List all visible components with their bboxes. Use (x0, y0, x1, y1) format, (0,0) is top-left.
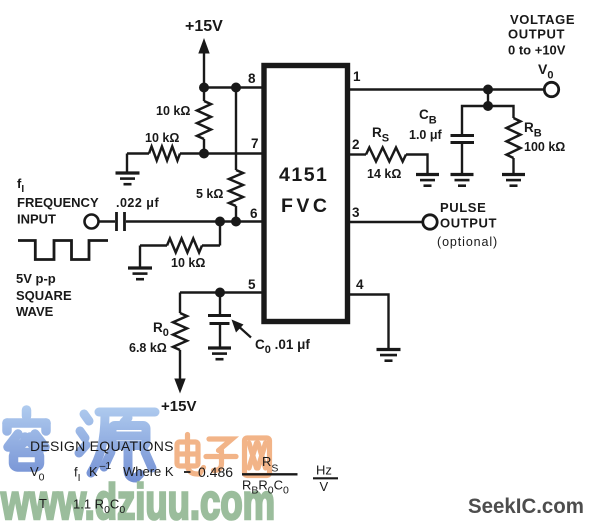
input terminal circle (85, 215, 99, 229)
svg-text:+15V: +15V (185, 18, 223, 35)
svg-text:4: 4 (356, 277, 364, 292)
node pin5 (215, 288, 225, 298)
wire pin5 to R0 (179, 293, 181, 314)
pointer arrow to C0 (232, 320, 252, 338)
svg-text:6: 6 (250, 206, 258, 221)
wire pin 3 (350, 221, 423, 223)
svg-text:DESIGN EQUATIONS: DESIGN EQUATIONS (30, 438, 174, 454)
wire R2 to ground (126, 154, 128, 174)
svg-text:2: 2 (352, 137, 360, 152)
resistor R4 10 k horizontal (140, 239, 220, 253)
svg-text:100 kΩ: 100 kΩ (524, 140, 565, 154)
wire to pin 8 (204, 86, 262, 88)
capacitor C1 .022uF (117, 212, 125, 231)
svg-text:7: 7 (251, 136, 259, 151)
wire pin 5 (180, 291, 262, 293)
svg-text:K: K (89, 464, 98, 479)
ground G4 (CB) (451, 175, 474, 186)
equation V0 = fI K^-1 Where K - 0.486 (30, 460, 233, 484)
wire pin 7 (204, 152, 262, 154)
wire +15V rail down (crosses pin7) (235, 88, 237, 171)
wire R0 down to supply arrow (179, 350, 181, 380)
svg-text:5: 5 (248, 277, 256, 292)
fraction Hz / V (313, 463, 338, 495)
svg-text:V: V (320, 479, 329, 494)
svg-text:FVC: FVC (281, 195, 331, 217)
ground G6 (RS) (416, 175, 439, 186)
svg-text:14 kΩ: 14 kΩ (367, 167, 401, 181)
node pin1 (483, 85, 493, 95)
svg-text:INPUT: INPUT (17, 212, 56, 227)
wire node down to R4 (219, 222, 221, 246)
svg-text:–1: –1 (100, 460, 112, 472)
resistor R2 10 k horizontal at pin 7 (127, 147, 204, 161)
label VOLTAGE OUTPUT 0 to +10V (508, 12, 575, 58)
wire pin 1 to V0 (350, 88, 544, 90)
watermark character 容 (7, 410, 46, 467)
svg-text:Where K: Where K (123, 464, 174, 479)
capacitor CB 1.0uF (451, 136, 475, 175)
capacitor C0 .01uF (208, 316, 231, 348)
wire node down (487, 90, 489, 107)
ground G7 (pin 4) (377, 350, 401, 361)
node pin6 right (231, 217, 241, 227)
svg-text:T: T (39, 496, 47, 511)
pulse output terminal (423, 215, 437, 229)
ground G5 (RB) (502, 175, 525, 186)
watermark characters 电子网 (177, 435, 270, 476)
+15V supply bottom (arrow down) (161, 379, 196, 416)
+15V supply top (185, 18, 223, 88)
svg-text:3: 3 (352, 205, 360, 220)
node pin6 left (215, 217, 225, 227)
svg-text:WAVE: WAVE (16, 304, 54, 319)
svg-text:SeekIC.com: SeekIC.com (468, 495, 584, 518)
fraction RS / RB R0 C0 (242, 454, 298, 497)
node at +15V rail right (231, 83, 241, 93)
op-amp/converter IC U1 4151 FVC (264, 66, 348, 322)
output terminal V0 (544, 82, 558, 96)
svg-text:SQUARE: SQUARE (16, 288, 72, 303)
svg-text:10 kΩ: 10 kΩ (156, 104, 190, 118)
svg-text:FREQUENCY: FREQUENCY (17, 195, 99, 210)
resistor R1 10 k vertical divider top (197, 88, 211, 154)
equation T - 1.1 R0C0 (39, 496, 125, 516)
svg-text:+15V: +15V (161, 398, 196, 415)
svg-text:OUTPUT: OUTPUT (440, 216, 497, 231)
wire input to C1 (99, 220, 116, 222)
svg-text:8: 8 (248, 71, 256, 86)
wire pin 6 (126, 220, 262, 222)
watermark character 源 (79, 412, 155, 478)
ground G2 (128, 268, 152, 279)
square wave symbol (18, 241, 108, 260)
svg-text:.022 μf: .022 μf (116, 196, 159, 210)
ground G3 (C0) (208, 348, 231, 359)
wire pin 4 to ground (350, 295, 389, 349)
svg-text:4151: 4151 (279, 164, 328, 186)
svg-text:VOLTAGE: VOLTAGE (510, 12, 575, 27)
svg-text:Hz: Hz (316, 463, 332, 478)
wire pin5 node to C0 (219, 293, 221, 315)
svg-text:1: 1 (353, 69, 361, 84)
resistor RS 14k at pin 2 (350, 148, 428, 175)
svg-text:0 to +10V: 0 to +10V (508, 43, 566, 58)
svg-text:0.486: 0.486 (198, 464, 233, 480)
svg-text:(optional): (optional) (437, 235, 498, 249)
node at +15V rail left (199, 83, 209, 93)
wire junction to CB (462, 106, 488, 134)
resistor RB 100k (507, 118, 521, 174)
resistor R0 6.8 k (173, 313, 187, 350)
resistor R3 5 k vertical (229, 170, 243, 222)
svg-text:1.0 μf: 1.0 μf (409, 128, 442, 142)
node at pin 7 junction (199, 149, 209, 159)
svg-text:10 kΩ: 10 kΩ (171, 256, 205, 270)
label PULSE OUTPUT (optional) (437, 200, 498, 249)
node CB/RB junction (483, 101, 493, 111)
svg-text:OUTPUT: OUTPUT (508, 27, 565, 42)
svg-text:6.8 kΩ: 6.8 kΩ (129, 341, 167, 355)
svg-text:5V p-p: 5V p-p (16, 271, 56, 286)
svg-text:PULSE: PULSE (440, 200, 486, 215)
wire R4 to ground (139, 246, 141, 269)
svg-text:10 kΩ: 10 kΩ (145, 131, 179, 145)
svg-text:5 kΩ: 5 kΩ (196, 187, 223, 201)
wire junction to RB (488, 106, 514, 118)
ground G1 (116, 173, 140, 184)
